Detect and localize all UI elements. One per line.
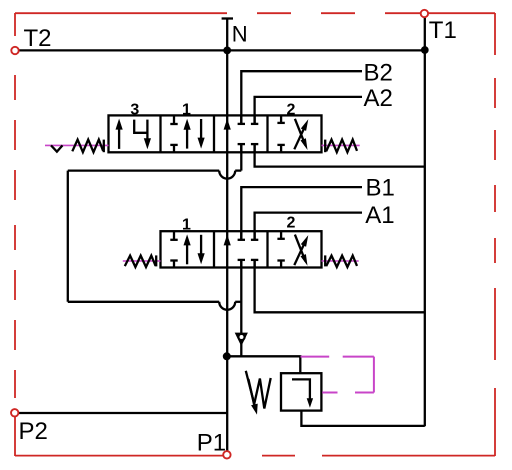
port T1 connection circle [421,10,428,17]
valve V1 body (4 positions) [109,115,322,152]
valve V2 body (3 positions) [161,231,322,267]
node P1/relief junction [223,352,231,360]
wire B1 line [241,187,362,240]
svg-text:2: 2 [286,102,295,119]
V1 position 1 (parallel) arrows [170,115,204,152]
svg-text:A2: A2 [364,85,393,112]
relief pilot line (dashed) [301,357,374,393]
V2 neutral position (open centre) [224,231,259,267]
node T2/N junction [223,47,231,55]
wire valve2 tank return [255,260,425,312]
svg-text:2: 2 [286,215,295,232]
wire B2 line [241,71,362,124]
port P2 connection circle [11,409,18,416]
wire N gallery vertical [226,19,228,357]
svg-text:B2: B2 [364,59,393,86]
label T1 [429,17,457,44]
label N [232,21,248,46]
port T2 connection circle [11,47,18,54]
svg-text:1: 1 [182,102,191,119]
svg-text:P1: P1 [197,430,226,457]
label B2 [364,59,393,86]
label P1 [197,430,226,457]
label B1 [366,175,395,202]
V1 neutral position (open centre) [224,115,259,152]
svg-text:T2: T2 [24,25,52,52]
label A2 [364,85,393,112]
label V2 position 1 [182,216,191,233]
wire T1 line [424,12,426,426]
check valve (ball and seat) [235,333,248,347]
port P1 connection circle [223,451,230,458]
relief valve body [281,373,321,410]
svg-text:B1: B1 [366,175,395,202]
relief valve adjustable spring [246,371,271,415]
V2 position 2 (crossed) arrows [277,231,308,267]
wire P1 riser [226,356,228,454]
V1 left spring with vent lead [45,140,109,153]
V1 position 2 (crossed) arrows [277,115,308,152]
label V2 position 2 [286,215,295,232]
relief valve flow path arrow [292,379,313,407]
V2 right spring [322,255,359,267]
wire relief inlet [227,356,300,373]
svg-text:T1: T1 [429,17,457,44]
V1 right spring [322,140,360,153]
svg-text:N: N [232,21,248,46]
V2 position 1 (parallel) arrows [170,231,204,267]
port N plug cap [222,17,233,19]
node T2/T1 junction [421,46,429,54]
wire supply left riser [67,171,69,302]
wire valve1 tank return [255,144,425,167]
wire relief outlet [301,411,424,426]
svg-text:A1: A1 [365,202,394,229]
svg-text:1: 1 [182,216,191,233]
svg-text:P2: P2 [19,418,48,445]
label P2 [19,418,48,445]
wire valve2 supply drop [240,260,242,356]
V2 left spring [123,255,161,267]
wire supply line lower with crossover bridge [68,302,242,310]
wire A1 line [255,213,362,240]
wire T2 line [18,49,425,51]
label V1 position 2 [286,102,295,119]
label V1 position 1 [182,102,191,119]
label A1 [365,202,394,229]
V1 position 3 (float) arrows [116,119,152,150]
label V1 position 3 [130,102,139,119]
svg-text:3: 3 [130,102,139,119]
label T2 [24,25,52,52]
wire supply line upper with crossover bridge [68,171,242,179]
wire valve1 supply drop [240,144,242,171]
wire A2 line [255,97,362,124]
wire P2 line [17,412,227,414]
